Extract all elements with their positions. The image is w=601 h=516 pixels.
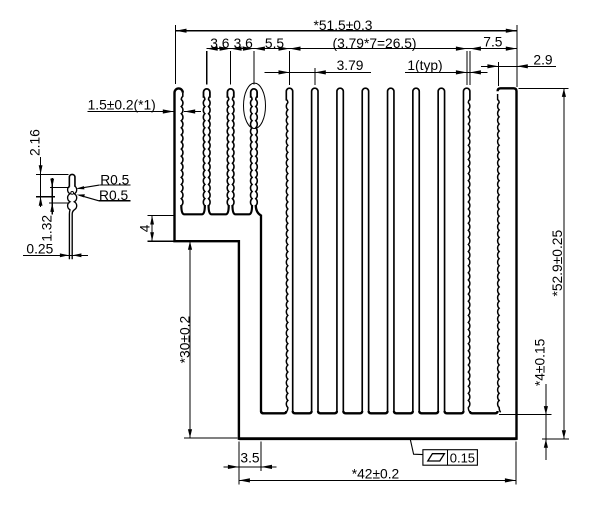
svg-text:2.16: 2.16 — [27, 129, 42, 156]
svg-text:3.5: 3.5 — [240, 450, 260, 465]
svg-text:(3.79*7=26.5): (3.79*7=26.5) — [333, 36, 417, 51]
svg-text:7.5: 7.5 — [483, 34, 503, 49]
svg-text:1(typ): 1(typ) — [407, 58, 442, 73]
svg-text:2.9: 2.9 — [533, 52, 553, 67]
svg-text:3.6: 3.6 — [210, 36, 230, 51]
svg-text:1.32: 1.32 — [40, 215, 55, 242]
svg-text:5.5: 5.5 — [265, 36, 285, 51]
svg-text:3.6: 3.6 — [234, 36, 254, 51]
svg-text:*30±0.2: *30±0.2 — [178, 316, 193, 363]
svg-text:3.79: 3.79 — [337, 58, 364, 73]
svg-text:*51.5±0.3: *51.5±0.3 — [314, 18, 373, 33]
svg-text:1.5±0.2(*1): 1.5±0.2(*1) — [88, 98, 156, 113]
svg-text:0.15: 0.15 — [450, 450, 475, 465]
svg-text:0.25: 0.25 — [26, 241, 53, 256]
svg-text:4: 4 — [138, 224, 153, 232]
svg-text:*52.9±0.25: *52.9±0.25 — [550, 230, 565, 297]
svg-text:*42±0.2: *42±0.2 — [352, 466, 399, 481]
svg-text:*4±0.15: *4±0.15 — [532, 338, 547, 386]
